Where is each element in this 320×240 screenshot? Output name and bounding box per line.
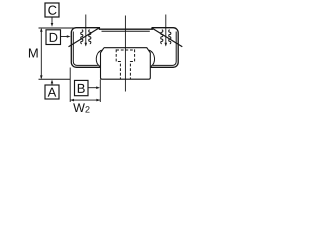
bottom extension line (mounting plane) bbox=[39, 78, 71, 80]
svg-text:M: M bbox=[28, 46, 39, 61]
C box + leader bbox=[45, 3, 59, 17]
B box + leader bbox=[75, 80, 89, 95]
M dimension line bbox=[40, 29, 42, 78]
svg-text:C: C bbox=[48, 3, 57, 18]
centerline left bolt hole bbox=[85, 15, 87, 46]
right hole thread squiggles bbox=[161, 30, 171, 44]
rail bbox=[101, 48, 151, 79]
top extension line bbox=[39, 27, 77, 29]
svg-text:A: A bbox=[48, 85, 57, 100]
W2 dimension line with arrows bbox=[70, 99, 100, 101]
rail counterbore hidden lines bbox=[116, 49, 134, 79]
seal lip around rail left bbox=[96, 50, 101, 66]
centerline rail bbox=[124, 16, 126, 92]
left hole thread squiggles bbox=[81, 30, 91, 44]
end seal inset line right bbox=[153, 32, 176, 66]
W2 extension lines bbox=[69, 68, 71, 103]
LM block outer outline bbox=[71, 28, 178, 68]
A box + leader bbox=[45, 85, 59, 99]
svg-text:D: D bbox=[49, 30, 58, 45]
end seal top edge bbox=[102, 30, 150, 32]
centerline right bolt hole bbox=[165, 15, 167, 46]
svg-text:W2: W2 bbox=[73, 101, 90, 115]
left diagonal slash bbox=[69, 28, 100, 47]
svg-text:B: B bbox=[77, 81, 86, 96]
D box + leader bbox=[46, 30, 61, 45]
right diagonal slash bbox=[151, 28, 182, 47]
seal lip around rail right bbox=[149, 50, 154, 66]
end seal inset line left bbox=[73, 32, 98, 66]
